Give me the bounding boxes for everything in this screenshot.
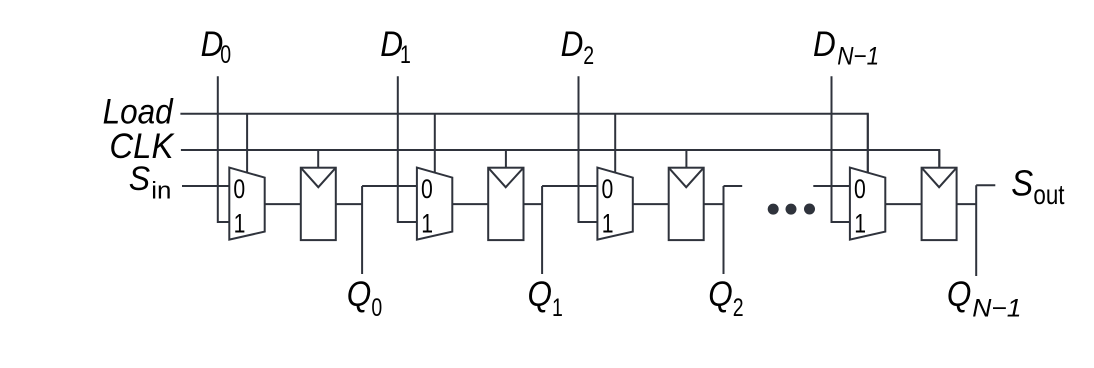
svg-text:Q: Q	[708, 276, 732, 315]
svg-text:1: 1	[602, 209, 614, 239]
wire mux 3 output to flip-flop 3 D input	[633, 203, 669, 205]
wire DN-1 vertical drop to mux 4 input 1	[832, 76, 850, 222]
wire stage3 Q open stub toward ellipsis	[724, 185, 743, 187]
mux U3 2-to-1 multiplexer stage 2	[417, 168, 452, 240]
svg-text:D: D	[561, 26, 584, 65]
ellipsis dot 2	[786, 204, 797, 215]
wire Load net horizontal	[180, 114, 867, 173]
flip-flop U6 D register stage 3 with clock triangle	[669, 168, 704, 240]
svg-text:1: 1	[400, 40, 411, 68]
svg-text:in: in	[151, 177, 171, 204]
svg-text:D: D	[813, 26, 836, 65]
svg-text:1: 1	[421, 209, 433, 239]
wire Q2 tap vertical at junction 3	[723, 186, 725, 274]
svg-text:0: 0	[421, 175, 433, 205]
wire CLK stub stage 3	[685, 150, 687, 168]
wire stage1 Q to stage2 mux input 0	[362, 185, 417, 187]
svg-text:2: 2	[733, 294, 744, 322]
wire mux 2 output to flip-flop 2 D input	[452, 203, 488, 205]
svg-text:1: 1	[854, 209, 866, 239]
wire CLK stub stage 1	[317, 150, 319, 168]
wire D2 vertical drop to mux 3 input 1	[579, 76, 598, 222]
mux U5 2-to-1 multiplexer stage 3	[597, 168, 632, 240]
svg-text:S: S	[129, 159, 150, 197]
svg-text:N−1: N−1	[837, 42, 879, 70]
wire Q1 tap vertical at junction 2	[541, 186, 543, 274]
flip-flop U2 D register stage 1 with clock triangle	[301, 168, 336, 240]
svg-text:0: 0	[854, 175, 866, 205]
wire S_in input	[182, 185, 229, 187]
svg-text:N−1: N−1	[972, 295, 1021, 322]
wire Load select stub stage 4	[867, 114, 869, 173]
wire CLK stub stage 4	[938, 150, 940, 168]
flip-flop U8 D register stage 4 with clock triangle	[922, 168, 957, 240]
ellipsis dot 1	[768, 204, 779, 215]
flip-flop U4 D register stage 2 with clock triangle	[488, 168, 523, 240]
wire flip-flop 4 Q output	[957, 203, 977, 205]
mux U1 2-to-1 multiplexer stage 1	[229, 168, 264, 240]
wire D1 vertical drop to mux 2 input 1	[398, 76, 417, 222]
svg-text:1: 1	[234, 209, 246, 239]
svg-text:0: 0	[233, 175, 245, 205]
wire flip-flop 2 Q output	[524, 203, 543, 205]
wire CLK stub stage 2	[505, 150, 507, 168]
wire D0 vertical drop to mux 1 input 1	[218, 76, 230, 222]
wire stage2 Q to stage3 mux input 0	[542, 185, 597, 187]
wire mux 1 output to flip-flop 1 D input	[265, 203, 301, 205]
wire Load select stub stage 1	[246, 114, 248, 173]
wire flip-flop 1 Q output	[336, 203, 362, 205]
svg-text:0: 0	[371, 294, 382, 322]
svg-text:S: S	[1011, 164, 1033, 204]
svg-text:0: 0	[602, 175, 614, 205]
mux U7 2-to-1 multiplexer stage 4	[850, 168, 885, 240]
svg-text:Q: Q	[347, 276, 371, 315]
wire QN-1 tap vertical at junction 4	[975, 185, 977, 276]
ellipsis dot 3	[804, 204, 815, 215]
svg-text:Q: Q	[947, 276, 971, 315]
wire Load select stub stage 3	[614, 114, 616, 173]
wire Load select stub stage 2	[434, 114, 436, 173]
wire CLK net horizontal	[181, 150, 939, 168]
wire mux 4 output to flip-flop 4 D input	[885, 203, 921, 205]
wire Q0 tap vertical at junction 1	[361, 186, 363, 274]
svg-text:2: 2	[583, 42, 594, 70]
wire flip-flop 3 Q output	[704, 203, 724, 205]
wire S_out output stub	[976, 184, 995, 186]
svg-text:Load: Load	[103, 93, 174, 132]
wire stage4 mux input 0 stub from ellipsis	[813, 185, 850, 187]
svg-text:out: out	[1033, 180, 1064, 211]
svg-text:Q: Q	[528, 276, 552, 315]
svg-text:0: 0	[220, 40, 231, 68]
svg-text:1: 1	[552, 294, 563, 322]
